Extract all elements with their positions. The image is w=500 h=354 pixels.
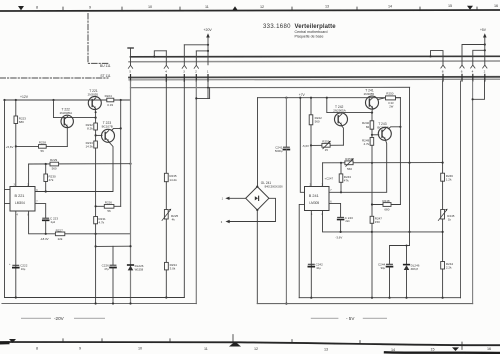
svg-text:47k: 47k <box>49 178 54 182</box>
resistor R242 560 <box>310 98 312 115</box>
svg-text:3: 3 <box>183 70 185 74</box>
wire -18.3V feedback line <box>29 211 131 234</box>
wire pin3 jog to +20V riser <box>184 44 208 46</box>
svg-text:6: 6 <box>461 69 463 73</box>
resistor R223 680 <box>14 116 18 124</box>
wire T223 base <box>96 134 102 136</box>
svg-text:1.2k: 1.2k <box>446 178 452 182</box>
wire right block outer bottom rail <box>257 303 472 305</box>
svg-text:0.33: 0.33 <box>107 103 113 107</box>
svg-text:12: 12 <box>260 5 264 9</box>
svg-text:Verteilerplatte: Verteilerplatte <box>295 24 337 30</box>
svg-text:10µ: 10µ <box>316 266 321 270</box>
connector BU111 pin 1 with +20V arrow <box>207 36 209 65</box>
svg-text:560: 560 <box>315 120 320 124</box>
ruler numbers bottom <box>36 347 491 352</box>
svg-text:2µ2: 2µ2 <box>51 220 56 224</box>
svg-text:+7V: +7V <box>299 93 306 97</box>
bus wire (grey shadow line) <box>129 60 500 63</box>
B221 left pin stubs <box>5 189 11 191</box>
svg-text:BC107B: BC107B <box>377 126 388 130</box>
svg-text:4k: 4k <box>172 217 176 221</box>
svg-text:14.3k: 14.3k <box>85 144 93 148</box>
svg-text:47k: 47k <box>344 178 349 182</box>
svg-text:C241: C241 <box>275 145 283 149</box>
svg-text:15: 15 <box>325 148 329 152</box>
ruler triangle markers bottom <box>9 339 16 343</box>
svg-text:4: 4 <box>472 69 474 73</box>
capacitor C243 22n <box>338 216 344 218</box>
resistor R244 2.2k <box>441 262 445 270</box>
svg-text:8: 8 <box>36 6 38 10</box>
svg-text:C 223: C 223 <box>50 217 58 221</box>
svg-text:C222: C222 <box>20 264 28 268</box>
svg-text:C 243: C 243 <box>345 216 353 220</box>
caption -5V <box>311 317 339 319</box>
trimmer R245 1k <box>441 210 445 220</box>
capacitor C226 47u <box>112 246 114 265</box>
transistor T221 2N3055 <box>88 97 101 110</box>
wire R248 line <box>372 204 400 206</box>
resistor R234 3.0k <box>165 262 169 270</box>
svg-text:ST 111: ST 111 <box>100 74 110 78</box>
right pin numbers <box>442 69 486 73</box>
frame dash-dot vertical line at x=88 <box>88 14 109 64</box>
svg-text:15: 15 <box>431 348 435 352</box>
svg-text:15: 15 <box>448 4 452 8</box>
svg-text:13: 13 <box>324 347 328 351</box>
wire left block outer bottom rail <box>2 303 196 305</box>
ruler triangle markers top <box>18 6 24 10</box>
svg-text:1k: 1k <box>448 217 452 221</box>
svg-text:-3,6V: -3,6V <box>335 236 342 240</box>
svg-text:W1558: W1558 <box>135 267 144 271</box>
wire right supply rail +7V <box>258 97 401 99</box>
svg-text:R248: R248 <box>382 199 390 203</box>
svg-text:2N3055: 2N3055 <box>364 92 375 96</box>
capacitor C244 10u <box>387 263 393 265</box>
connector BU111 pin 3 <box>183 45 185 65</box>
svg-text:-5,6V: -5,6V <box>302 144 309 148</box>
svg-text:82: 82 <box>366 125 370 129</box>
wire C226 top link <box>96 245 131 247</box>
svg-text:10µ: 10µ <box>21 267 26 271</box>
svg-text:14.2k: 14.2k <box>169 178 177 182</box>
wire left supply rail +16V <box>5 99 131 101</box>
wire into B221 top pin <box>28 164 30 187</box>
svg-text:22n: 22n <box>345 219 350 223</box>
svg-text:C242: C242 <box>316 263 324 267</box>
wire bridge - to outer rail <box>256 210 258 304</box>
svg-text:B40C5000/3300: B40C5000/3300 <box>265 186 284 189</box>
svg-text:R226: R226 <box>105 200 113 204</box>
transistor T243 BC107B <box>378 127 391 140</box>
bridge rectifier GL241 <box>246 187 269 210</box>
svg-text:R250: R250 <box>386 92 394 96</box>
bus wire (dark, +20V distribution) <box>131 55 500 58</box>
wire T243 emitter down <box>329 140 387 193</box>
svg-text:Plaquette de base: Plaquette de base <box>295 35 324 39</box>
wire R251 emitter line <box>311 144 343 146</box>
wire right pin bump to dark bus <box>431 51 444 65</box>
wire pin4 jog to dark bus <box>154 51 166 57</box>
wire T243 collector to riser <box>389 127 401 129</box>
svg-text:R227: R227 <box>56 228 64 232</box>
svg-text:+5V: +5V <box>480 28 487 32</box>
svg-text:1: 1 <box>207 70 209 74</box>
svg-text:2N2905A: 2N2905A <box>333 108 346 112</box>
wire T223 collector to riser <box>112 128 121 130</box>
svg-text:GL 241: GL 241 <box>261 181 272 185</box>
wire pin1 drop and jog <box>196 81 208 98</box>
wire rail drop to T222 line <box>54 100 96 118</box>
capacitor C223 2u2 <box>43 217 49 219</box>
svg-text:LM304: LM304 <box>15 201 25 205</box>
wire C244 link line <box>390 246 410 265</box>
svg-text:+12V: +12V <box>20 95 29 99</box>
svg-text:680: 680 <box>384 207 389 211</box>
svg-text:R224: R224 <box>105 94 113 98</box>
wire T221 collector to R224 <box>101 99 107 101</box>
svg-text:1: 1 <box>222 197 224 201</box>
connector BU111 right group pin arrows <box>441 65 445 68</box>
wire riser from R224 node down <box>120 100 122 206</box>
wire B221 pin4 to C222 <box>15 211 17 298</box>
svg-text:2N2905A: 2N2905A <box>60 111 73 115</box>
svg-text:DL246: DL246 <box>411 263 420 267</box>
left connector line pin2 down (grey) <box>195 81 197 304</box>
op-amp regulator B221 LM304 <box>10 187 35 212</box>
resistor R249 8.2k <box>370 138 374 146</box>
wire B221 pin7 to C223 <box>35 204 46 218</box>
wire right pin jog to +5V riser <box>462 45 485 65</box>
svg-text:2: 2 <box>195 70 197 74</box>
svg-text:12: 12 <box>254 347 258 351</box>
svg-text:- 5V: - 5V <box>346 316 355 321</box>
svg-text:11: 11 <box>204 347 208 351</box>
svg-text:C226: C226 <box>102 263 110 267</box>
left connector line pin3 down <box>183 81 185 298</box>
svg-text:R228: R228 <box>39 140 47 144</box>
transistor T241 2N3055 <box>366 96 379 109</box>
frame dash-dot line ST 111 <box>0 77 108 79</box>
svg-text:9: 9 <box>89 5 91 9</box>
wire bridge AC input arrow 2 <box>228 198 276 221</box>
zener diode DL246 ZD6.8 <box>406 246 408 265</box>
svg-text:11: 11 <box>205 5 209 9</box>
svg-text:13: 13 <box>325 5 329 9</box>
resistor R230 47k <box>45 164 47 174</box>
resistor R250 0.33 2W <box>378 98 386 100</box>
svg-text:3: 3 <box>221 220 223 224</box>
resistor R227 22k <box>55 232 64 236</box>
svg-text:16: 16 <box>494 4 498 8</box>
svg-text:3.0k: 3.0k <box>170 266 176 270</box>
svg-text:5: 5 <box>129 70 131 74</box>
wire B241 pin3 left to inner rail <box>299 204 304 297</box>
svg-text:-20V: -20V <box>54 316 65 321</box>
wire rail to bridge + <box>257 98 259 187</box>
zener diode DL226 <box>128 264 134 266</box>
bottom border ruler line <box>0 342 500 345</box>
svg-text:DL226: DL226 <box>135 264 144 268</box>
svg-text:14: 14 <box>391 348 395 352</box>
svg-text:56: 56 <box>107 209 111 213</box>
svg-text:2W: 2W <box>389 104 393 108</box>
resistor R226 56 <box>104 205 114 209</box>
resistor R243 47k <box>340 163 342 174</box>
svg-text:C244: C244 <box>378 263 386 267</box>
wire B241 pin6 to C243 <box>329 203 341 217</box>
capacitor C242 10u <box>308 263 314 265</box>
resistor R224 0.33 <box>107 98 114 102</box>
svg-text:47µ: 47µ <box>104 267 109 271</box>
wire bridge AC input arrow 1 <box>228 197 246 199</box>
wire right block inner bottom rail <box>299 297 460 299</box>
svg-text:5000µ: 5000µ <box>275 149 283 153</box>
wire B241 pin4 to C242 <box>310 211 312 298</box>
wire riser from rail end down <box>399 98 401 205</box>
left connector line pin4 down through R235/R225/R234 <box>165 81 167 173</box>
resistor R229 560 <box>50 162 59 166</box>
caption -20V <box>21 317 51 319</box>
wire lower bus corner riser <box>209 88 211 99</box>
svg-text:4: 4 <box>17 213 19 216</box>
node rail dots <box>3 99 5 101</box>
svg-text:4.7k: 4.7k <box>364 142 370 146</box>
resistor R228 56 <box>39 145 47 149</box>
svg-text:BC107B: BC107B <box>102 124 113 128</box>
op-amp regulator B241 LM305 <box>305 187 330 211</box>
svg-text:8: 8 <box>36 347 38 351</box>
resistor R240 <box>371 113 373 121</box>
transistor T223 BC107B <box>102 129 115 142</box>
title block text <box>263 24 336 39</box>
svg-text:2.2k: 2.2k <box>446 266 452 270</box>
resistor R235 14.2k <box>164 173 168 181</box>
wire T242 drop from rail <box>327 98 372 113</box>
bus wire ST 111 plug rail <box>129 76 500 79</box>
resistor R232 8.2k <box>94 123 98 130</box>
wire into B241 top pin1 <box>322 163 324 187</box>
wire right pin jog 2 to +5V riser <box>473 50 485 64</box>
svg-text:8.2k: 8.2k <box>87 126 93 130</box>
+5V output arrow <box>484 36 486 65</box>
wire T241 emitter node <box>371 109 373 113</box>
wire R223 branch vertical <box>15 100 17 116</box>
transistor T242 2N2905A <box>335 113 348 126</box>
svg-text:-18.3V: -18.3V <box>40 237 49 241</box>
svg-text:2: 2 <box>484 69 486 73</box>
svg-text:+20V: +20V <box>204 28 213 32</box>
resistor R247 <box>370 216 374 223</box>
svg-text:+: + <box>9 263 11 266</box>
right connector line down to inner rail corner <box>460 81 462 298</box>
wire left block outer left edge <box>4 100 6 298</box>
trimmer R225 4k <box>164 210 168 220</box>
connector BU111 pin 2 <box>195 51 197 65</box>
trimmer R251 15 <box>322 143 330 147</box>
svg-text:Central motherboard: Central motherboard <box>295 30 328 34</box>
wire pin jog right edge to outer riser <box>473 81 485 99</box>
svg-text:2N3055: 2N3055 <box>88 92 99 96</box>
svg-text:+5,6V: +5,6V <box>6 145 14 149</box>
wire rail to B221 pin3 <box>300 98 304 193</box>
connector BU111 pin 5 with test-point T bar <box>128 47 133 49</box>
svg-text:B 221: B 221 <box>15 194 25 198</box>
connector BU111 pin 4 <box>165 51 167 65</box>
resistor R233 14.3k <box>94 141 98 148</box>
svg-text:560: 560 <box>52 167 57 171</box>
svg-text:680: 680 <box>19 120 24 124</box>
svg-text:90µ: 90µ <box>381 266 386 270</box>
svg-text:333.1680: 333.1680 <box>263 24 291 30</box>
wire T222 emitter lead <box>66 127 68 146</box>
resistor R231 4.7k <box>94 217 98 224</box>
svg-text:14: 14 <box>388 4 392 8</box>
wire R252 sense line <box>323 162 443 164</box>
wire pin2 jog to +20V riser <box>196 50 208 52</box>
svg-text:16: 16 <box>487 347 491 351</box>
resistor R248 680 <box>383 203 391 207</box>
svg-text:+C247: +C247 <box>325 176 334 180</box>
svg-text:4: 4 <box>165 70 167 74</box>
ruler numbers top <box>36 4 498 9</box>
transistor T222 2N2905A <box>61 115 73 127</box>
svg-text:10: 10 <box>138 347 142 351</box>
right connector line pin 443 down <box>442 81 444 173</box>
svg-text:8: 8 <box>442 69 444 73</box>
pin numbers 5 4 3 2 1 <box>129 70 209 74</box>
svg-text:7: 7 <box>330 189 332 192</box>
trimmer R252 560 <box>345 161 353 165</box>
bus wire lower distribution <box>131 86 410 88</box>
wire T243 base <box>372 134 379 136</box>
svg-text:150: 150 <box>375 220 380 224</box>
wire node to R228 <box>16 145 68 147</box>
svg-text:R251: R251 <box>322 139 330 143</box>
capacitor C222 10u <box>13 264 19 266</box>
svg-text:4.7k: 4.7k <box>99 220 105 224</box>
svg-text:22k: 22k <box>58 237 63 241</box>
svg-text:ZD6,8: ZD6,8 <box>411 267 419 271</box>
top border ruler line <box>0 10 500 11</box>
svg-text:R229: R229 <box>50 158 58 162</box>
svg-text:R252: R252 <box>345 157 353 161</box>
connector ST111 pin bars right group <box>443 74 485 81</box>
right connector line down to outer rail corner (grey) <box>472 81 474 304</box>
wire bus riser down right block <box>409 88 411 246</box>
svg-text:560: 560 <box>347 167 352 171</box>
wire T221 emitter chain <box>94 109 96 112</box>
wire R226 line <box>96 205 121 207</box>
resistor R246 1.2k <box>441 173 445 181</box>
svg-text:10: 10 <box>148 5 152 9</box>
wire R229 sense line <box>29 163 131 165</box>
svg-text:B 241: B 241 <box>309 194 319 198</box>
capacitor C241 5000u <box>285 98 287 147</box>
connector ST111 pin bars left group <box>131 75 209 82</box>
svg-text:BU 111: BU 111 <box>100 64 111 68</box>
left connector line pin5 down (grey) <box>130 81 132 304</box>
wire -3.6V feedback line <box>323 211 443 232</box>
wire left block inner bottom rail <box>5 297 185 299</box>
wire T223 emitter down to B221 pin line <box>35 142 113 192</box>
svg-text:9: 9 <box>79 347 81 351</box>
svg-text:56: 56 <box>41 149 45 153</box>
svg-text:LM305: LM305 <box>309 201 319 205</box>
wire T242 emitter to R251 line <box>341 125 343 145</box>
